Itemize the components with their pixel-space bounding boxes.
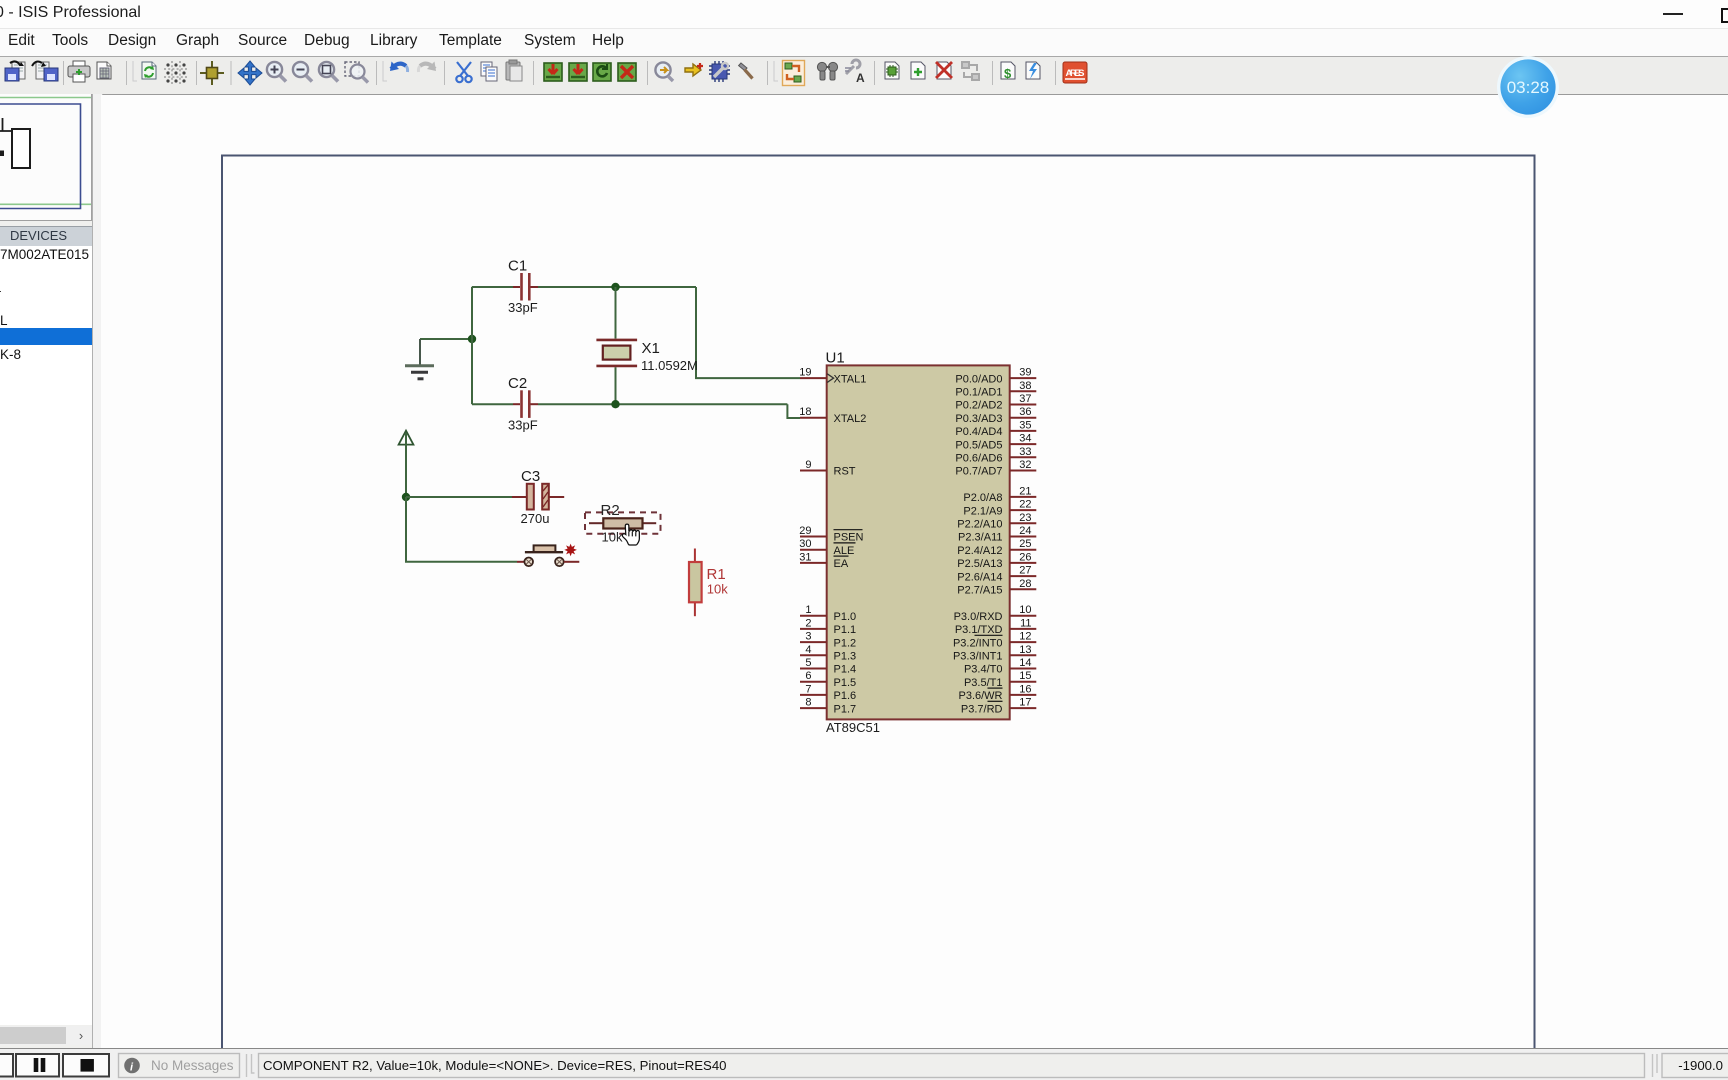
pin 10 P3.0/RXD <box>954 604 1037 623</box>
svg-text:P3.5/T1: P3.5/T1 <box>964 677 1003 689</box>
svg-text:EA: EA <box>834 558 849 570</box>
capacitor C2 <box>508 375 538 433</box>
button state dot <box>564 544 577 557</box>
svg-text:P0.0/AD0: P0.0/AD0 <box>955 373 1002 385</box>
property assignment <box>845 60 865 85</box>
resistor R2 (dragged selection) <box>585 502 661 544</box>
svg-text:19: 19 <box>799 367 811 379</box>
pan <box>238 61 262 85</box>
svg-text:P2.0/A8: P2.0/A8 <box>963 492 1002 504</box>
svg-text:P2.6/A14: P2.6/A14 <box>957 571 1002 583</box>
pin 19 XTAL1 <box>799 367 866 386</box>
ARES <box>1063 62 1087 83</box>
zoom all <box>319 62 338 82</box>
svg-text:28: 28 <box>1019 578 1031 590</box>
pin 36 P0.3/AD3 <box>955 406 1036 425</box>
svg-text:17: 17 <box>1019 697 1031 709</box>
divider between panel and canvas <box>92 94 103 1048</box>
IC U1 AT89C51 <box>826 350 1010 736</box>
svg-text:P3.2/INT0: P3.2/INT0 <box>953 637 1003 649</box>
pin 6 P1.5 <box>800 670 856 689</box>
svg-text:7: 7 <box>805 683 811 695</box>
pin 4 P1.3 <box>800 644 856 663</box>
wire autorouter (active) <box>783 61 805 86</box>
undo <box>390 62 408 73</box>
svg-text:11.0592M: 11.0592M <box>641 358 698 373</box>
svg-text:8: 8 <box>805 697 811 709</box>
svg-text:22: 22 <box>1019 499 1031 511</box>
svg-text:31: 31 <box>799 551 811 563</box>
copy <box>481 62 497 81</box>
svg-text:P2.7/A15: P2.7/A15 <box>957 585 1002 597</box>
svg-text:AT89C51: AT89C51 <box>826 720 880 735</box>
wire down to button <box>406 497 517 562</box>
svg-text:25: 25 <box>1019 538 1031 550</box>
node B junction <box>402 493 410 501</box>
svg-text:11: 11 <box>1020 617 1031 629</box>
svg-text:30: 30 <box>799 538 811 550</box>
svg-text:U1: U1 <box>826 350 845 367</box>
pin 2 P1.1 <box>800 617 856 636</box>
status bar <box>0 1048 1728 1080</box>
capacitor C3 270u <box>512 468 564 526</box>
svg-text:C1: C1 <box>508 258 527 275</box>
svg-text:P1.5: P1.5 <box>834 677 857 689</box>
svg-text:P0.1/AD1: P0.1/AD1 <box>955 387 1002 399</box>
junction C2/X1 <box>611 400 619 408</box>
wire to pin 19 <box>696 287 800 378</box>
pin 30 ALE <box>799 538 855 557</box>
svg-text:P1.1: P1.1 <box>834 624 857 636</box>
svg-text:X1: X1 <box>642 340 660 357</box>
toolbar <box>0 56 1728 95</box>
ground <box>405 339 434 379</box>
svg-text:6: 6 <box>805 670 811 682</box>
svg-text:No Messages: No Messages <box>151 1058 234 1073</box>
svg-text:R1: R1 <box>707 566 726 583</box>
junction C1/X1 <box>611 283 619 291</box>
hammer <box>739 63 753 79</box>
svg-text:P2.5/A13: P2.5/A13 <box>957 558 1002 570</box>
svg-text:1: 1 <box>805 604 811 616</box>
svg-text:XTAL1: XTAL1 <box>834 373 867 385</box>
svg-text:P3.3/INT1: P3.3/INT1 <box>953 651 1003 663</box>
svg-text:270u: 270u <box>521 511 550 526</box>
redo <box>418 62 436 73</box>
svg-text:-1900.0: -1900.0 <box>1678 1058 1723 1073</box>
pin 37 P0.2/AD2 <box>955 393 1036 412</box>
svg-text:26: 26 <box>1019 551 1031 563</box>
svg-text:COMPONENT R2, Value=10k, Modul: COMPONENT R2, Value=10k, Module=<NONE>. … <box>263 1058 727 1073</box>
redraw <box>142 62 156 79</box>
open design <box>5 61 25 81</box>
pin 12 P3.2/INT0 <box>953 631 1036 650</box>
resistor R1 <box>689 549 728 617</box>
svg-text:33: 33 <box>1019 446 1031 458</box>
pin 35 P0.4/AD4 <box>955 419 1036 438</box>
svg-text:P1.0: P1.0 <box>834 611 857 623</box>
pin 18 XTAL2 <box>799 406 866 425</box>
svg-text:P3.4/T0: P3.4/T0 <box>964 664 1003 676</box>
left panel: DEVICES header <box>0 226 92 247</box>
crystal X1 <box>596 287 697 404</box>
pin 23 P2.2/A10 <box>957 512 1036 531</box>
svg-text:$: $ <box>1004 66 1012 81</box>
pin 3 P1.2 <box>800 631 856 650</box>
pin 38 P0.1/AD1 <box>955 380 1036 399</box>
svg-text:P0.2/AD2: P0.2/AD2 <box>955 400 1002 412</box>
svg-text:10k: 10k <box>707 582 728 597</box>
svg-text:C2: C2 <box>508 375 527 392</box>
pin 28 P2.7/A15 <box>957 578 1036 597</box>
pin 9 RST <box>800 459 856 478</box>
wire to pin 18 <box>787 404 800 418</box>
pin 32 P0.7/AD7 <box>955 459 1036 478</box>
block copy <box>544 63 562 81</box>
search tag <box>817 62 837 80</box>
pin 11 P3.1/TXD <box>955 617 1036 636</box>
svg-text:37: 37 <box>1019 393 1031 405</box>
pin 27 P2.6/A14 <box>957 565 1036 584</box>
svg-text:P3.7/RD: P3.7/RD <box>961 703 1003 715</box>
svg-text:36: 36 <box>1019 406 1031 418</box>
electrical check <box>1026 62 1040 79</box>
pin 26 P2.5/A13 <box>957 551 1036 570</box>
svg-text:35: 35 <box>1019 419 1031 431</box>
wire C2 rail <box>472 403 787 405</box>
svg-text:10: 10 <box>1019 604 1031 616</box>
svg-text:PSEN: PSEN <box>834 532 864 544</box>
svg-text:33pF: 33pF <box>508 418 538 433</box>
pin 39 P0.0/AD0 <box>955 367 1036 386</box>
pin 25 P2.4/A12 <box>957 538 1036 557</box>
svg-text:P1.2: P1.2 <box>834 637 857 649</box>
svg-text:23: 23 <box>1019 512 1031 524</box>
svg-text:29: 29 <box>799 525 811 537</box>
wire left vertical C1-C2 <box>471 287 473 404</box>
pin 22 P2.1/A9 <box>963 499 1036 518</box>
svg-text:21: 21 <box>1019 485 1031 497</box>
marks <box>97 62 111 79</box>
menu bar <box>0 28 1728 57</box>
svg-text:15: 15 <box>1019 670 1031 682</box>
wire to C3 <box>406 496 512 498</box>
origin <box>200 61 224 85</box>
svg-text:27: 27 <box>1019 565 1031 577</box>
svg-text:5: 5 <box>805 657 811 669</box>
svg-text:4: 4 <box>805 644 811 656</box>
svg-text:9: 9 <box>805 459 811 471</box>
new object <box>685 63 703 76</box>
pin 31 EA <box>799 551 849 570</box>
pin 8 P1.7 <box>800 697 856 716</box>
svg-text:P1.7: P1.7 <box>834 703 857 715</box>
svg-text:14: 14 <box>1019 657 1031 669</box>
svg-text:33pF: 33pF <box>508 300 538 315</box>
print <box>68 61 90 82</box>
capacitor C1 <box>508 258 538 316</box>
svg-text:2: 2 <box>805 617 811 629</box>
pin 16 P3.6/WR <box>958 683 1036 702</box>
svg-text:P0.6/AD6: P0.6/AD6 <box>955 453 1002 465</box>
svg-text:P0.5/AD5: P0.5/AD5 <box>955 439 1002 451</box>
svg-text:P0.7/AD7: P0.7/AD7 <box>955 466 1002 478</box>
pin 1 P1.0 <box>800 604 856 623</box>
grid <box>164 61 188 85</box>
svg-text:P3.6/WR: P3.6/WR <box>958 690 1002 702</box>
pin 34 P0.5/AD5 <box>955 433 1036 452</box>
svg-text:XTAL2: XTAL2 <box>834 413 867 425</box>
svg-text:34: 34 <box>1019 433 1031 445</box>
svg-text:P1.6: P1.6 <box>834 690 857 702</box>
svg-text:P0.4/AD4: P0.4/AD4 <box>955 426 1002 438</box>
zoom out <box>293 62 312 82</box>
svg-text:03:28: 03:28 <box>1507 78 1550 97</box>
svg-text:P1.4: P1.4 <box>834 664 857 676</box>
pin 7 P1.6 <box>800 683 856 702</box>
svg-text:24: 24 <box>1019 525 1031 537</box>
title bar <box>0 0 1728 28</box>
push button <box>517 545 579 566</box>
node A junction <box>468 335 476 343</box>
power +V symbol <box>399 431 414 497</box>
svg-text:32: 32 <box>1019 459 1031 471</box>
pin 24 P2.3/A11 <box>958 525 1036 544</box>
BOM <box>1001 62 1015 81</box>
new sheet <box>911 62 925 79</box>
pin 33 P0.6/AD6 <box>955 446 1036 465</box>
svg-text:C3: C3 <box>521 468 540 485</box>
svg-text:P2.1/A9: P2.1/A9 <box>963 505 1002 517</box>
pin 21 P2.0/A8 <box>963 485 1036 504</box>
svg-text:18: 18 <box>799 406 811 418</box>
svg-text:16: 16 <box>1019 683 1031 695</box>
svg-text:P3.0/RXD: P3.0/RXD <box>954 611 1003 623</box>
left panel: horizontal scrollbar <box>0 1026 92 1045</box>
remove sheet <box>936 62 952 79</box>
block delete <box>618 63 636 81</box>
svg-text:39: 39 <box>1019 367 1031 379</box>
svg-text:P1.3: P1.3 <box>834 651 857 663</box>
pin 14 P3.4/T0 <box>964 657 1036 676</box>
svg-text:A: A <box>856 71 865 85</box>
pin 15 P3.5/T1 <box>964 670 1036 689</box>
wire ground to node A <box>420 338 472 340</box>
goto <box>655 62 673 81</box>
chip wrench <box>709 61 730 82</box>
svg-text:P2.4/A12: P2.4/A12 <box>957 545 1002 557</box>
wire C1 rail <box>472 286 696 288</box>
pin 29 PSEN <box>799 525 863 544</box>
svg-text:ALE: ALE <box>834 545 855 557</box>
svg-text:ARES: ARES <box>1066 68 1085 79</box>
svg-text:P0.3/AD3: P0.3/AD3 <box>955 413 1002 425</box>
sheet border frame <box>222 156 1535 1049</box>
left panel: overview window <box>0 94 92 221</box>
svg-text:13: 13 <box>1019 644 1031 656</box>
zoom in <box>267 62 286 82</box>
svg-text:R2: R2 <box>601 502 620 519</box>
left panel: devices list <box>0 246 92 1025</box>
svg-text:3: 3 <box>805 631 811 643</box>
zoom area <box>345 62 368 83</box>
svg-text:10k: 10k <box>602 529 623 544</box>
block move <box>569 63 587 81</box>
save design <box>32 62 58 81</box>
svg-text:12: 12 <box>1019 631 1031 643</box>
block rotate <box>593 63 611 81</box>
svg-text:P3.1/TXD: P3.1/TXD <box>955 624 1003 636</box>
goto sheet <box>962 62 979 80</box>
pin 5 P1.4 <box>800 657 856 676</box>
svg-text:38: 38 <box>1019 380 1031 392</box>
svg-text:RST: RST <box>834 466 856 478</box>
pin 13 P3.3/INT1 <box>953 644 1036 663</box>
svg-text:P2.3/A11: P2.3/A11 <box>958 532 1002 544</box>
cut <box>456 62 471 82</box>
mouse cursor <box>622 524 639 545</box>
pin 17 P3.7/RD <box>961 697 1036 716</box>
paste <box>506 60 522 81</box>
svg-text:P2.2/A10: P2.2/A10 <box>957 519 1002 531</box>
design explorer <box>885 62 899 79</box>
